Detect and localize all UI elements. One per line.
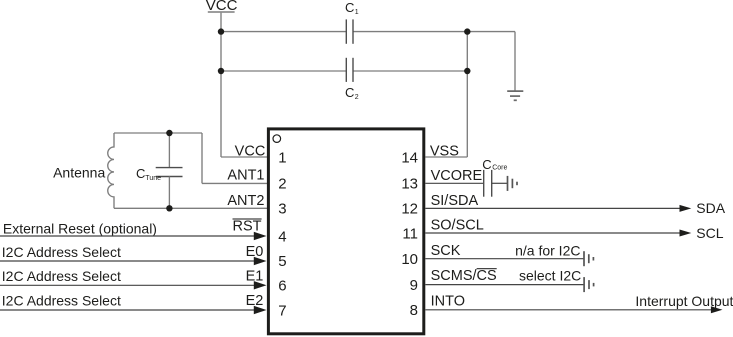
svg-text:1: 1	[278, 149, 286, 166]
wire top supply rail	[221, 32, 515, 91]
svg-text:VCORE: VCORE	[431, 168, 483, 184]
capacitor C2	[345, 58, 359, 101]
wire I2C address select to E0 pin 5	[0, 244, 267, 265]
wire INTO to interrupt output	[425, 293, 733, 314]
pin 1 VCC label	[235, 144, 287, 167]
svg-text:I2C Address Select: I2C Address Select	[2, 292, 121, 308]
wire second supply rail	[221, 70, 467, 72]
pin 12 SI/SDA label	[401, 193, 478, 218]
wire SI/SDA to SDA	[425, 200, 725, 216]
capacitor C1	[345, 0, 359, 44]
ground at CCore	[508, 176, 518, 191]
pin 2 ANT1 label	[227, 168, 286, 193]
pin 6 E1 label	[246, 269, 287, 295]
antenna L1	[53, 133, 114, 208]
capacitor CTune	[136, 133, 183, 208]
wire VSS vertical from pin 14	[425, 32, 467, 157]
svg-text:C: C	[136, 166, 145, 181]
node antenna bottom junction	[166, 205, 172, 211]
pin 7 E2 label	[246, 293, 287, 319]
ground at SCMS	[584, 277, 594, 292]
svg-text:C: C	[482, 157, 491, 172]
svg-text:6: 6	[278, 278, 286, 295]
svg-text:ANT1: ANT1	[227, 168, 264, 184]
wire I2C address select to E1 pin 6	[0, 268, 267, 289]
svg-text:Interrupt Output: Interrupt Output	[635, 293, 733, 309]
wire SO/SCL to SCL	[425, 225, 723, 241]
power symbol VCC	[206, 0, 238, 14]
svg-text:E1: E1	[246, 269, 264, 285]
svg-text:I2C Address Select: I2C Address Select	[2, 268, 121, 284]
svg-text:11: 11	[402, 225, 418, 242]
svg-text:2: 2	[278, 175, 286, 192]
wire external reset to RST pin 4	[0, 220, 267, 240]
svg-text:SDA: SDA	[696, 200, 725, 216]
svg-text:select I2C: select I2C	[519, 268, 581, 284]
capacitor CCore on VCORE	[425, 157, 507, 197]
node antenna top junction	[166, 130, 172, 136]
svg-text:External Reset (optional): External Reset (optional)	[3, 220, 157, 236]
svg-text:9: 9	[410, 277, 418, 294]
op IC U1 body	[268, 129, 423, 334]
svg-text:C: C	[345, 0, 354, 15]
wire SCK n/a for I2C	[425, 242, 584, 258]
svg-text:4: 4	[278, 229, 286, 246]
svg-text:Core: Core	[492, 165, 507, 172]
svg-text:SO/SCL: SO/SCL	[431, 218, 484, 234]
pin 4 RST label	[233, 218, 287, 245]
svg-text:2: 2	[355, 94, 359, 101]
pin 10 SCK label	[401, 243, 460, 268]
svg-text:14: 14	[401, 149, 418, 166]
svg-text:8: 8	[410, 302, 418, 319]
svg-text:ANT2: ANT2	[227, 193, 264, 209]
svg-text:Tune: Tune	[145, 175, 161, 182]
svg-text:C: C	[345, 85, 354, 100]
svg-text:SCL: SCL	[696, 225, 723, 241]
pin 5 E0 label	[246, 244, 287, 270]
svg-text:I2C Address Select: I2C Address Select	[2, 244, 121, 260]
wire I2C address select to E2 pin 7	[0, 292, 267, 314]
svg-text:5: 5	[278, 253, 286, 270]
pin 3 ANT2 label	[227, 193, 286, 218]
svg-text:1: 1	[355, 9, 359, 16]
svg-text:VCC: VCC	[235, 144, 266, 160]
svg-text:12: 12	[401, 201, 418, 218]
svg-text:13: 13	[401, 176, 418, 193]
svg-text:SCK: SCK	[431, 243, 461, 259]
wire antenna top to ANT1 pin 2	[114, 133, 267, 183]
pin 14 VSS label	[401, 144, 459, 167]
wire antenna bottom to ANT2 pin 3	[114, 207, 267, 209]
pin 13 VCORE label	[401, 168, 482, 193]
pin 9 SCMS/CS label	[410, 268, 497, 294]
svg-text:3: 3	[278, 201, 286, 218]
svg-text:n/a for I2C: n/a for I2C	[515, 242, 580, 258]
svg-text:SCMS/CS: SCMS/CS	[431, 268, 497, 284]
svg-text:E2: E2	[246, 293, 264, 309]
svg-text:VSS: VSS	[430, 144, 459, 160]
wire SCMS select I2C	[425, 268, 584, 285]
junction dots on rails	[218, 28, 471, 74]
ground at SCK	[584, 251, 593, 266]
svg-text:RST: RST	[233, 218, 262, 234]
svg-text:E0: E0	[246, 244, 264, 260]
svg-text:Antenna: Antenna	[53, 164, 105, 180]
svg-text:INTO: INTO	[431, 293, 465, 309]
svg-text:10: 10	[401, 251, 418, 268]
wire VCC vertical to pin 1	[221, 13, 267, 157]
svg-text:7: 7	[278, 302, 286, 319]
pin 11 SO/SCL label	[402, 218, 483, 243]
pin 8 INTO label	[410, 293, 465, 319]
ground	[507, 91, 523, 100]
svg-text:SI/SDA: SI/SDA	[431, 193, 479, 209]
